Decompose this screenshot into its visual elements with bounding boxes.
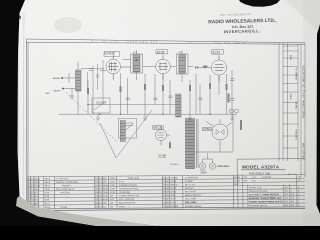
svg-text:CONTROL: CONTROL (60, 192, 71, 194)
svg-text:MICA: MICA (45, 178, 51, 181)
svg-text:TUB: TUB (45, 196, 50, 198)
svg-text:DATE: DATE (290, 54, 293, 60)
svg-text:ELEC: ELEC (45, 203, 51, 205)
svg-text:1st & 2nd I.F. TRANS 455 KC/S: 1st & 2nd I.F. TRANS 455 KC/S (249, 193, 280, 196)
svg-text:GRID LEAK: GRID LEAK (128, 177, 140, 180)
svg-text:.0005: .0005 (35, 186, 41, 188)
svg-text:CHASSIS: CHASSIS (262, 176, 272, 179)
svg-text:100K: 100K (103, 196, 109, 198)
svg-text:500K: 500K (103, 199, 109, 201)
svg-text:SPEAKER TRANSFORMER 7000: SPEAKER TRANSFORMER 7000 (249, 197, 282, 200)
svg-text:TUB: TUB (45, 193, 50, 195)
svg-text:A.V.C.: A.V.C. (119, 180, 125, 183)
svg-text:POWER TRANSFORMER 230V 50: POWER TRANSFORMER 230V 50 (249, 200, 284, 203)
svg-text:CIRCUIT 7084: CIRCUIT 7084 (301, 142, 305, 160)
svg-text:AERIAL: AERIAL (53, 77, 61, 80)
svg-text:EF39: EF39 (171, 181, 177, 183)
svg-text:RECTIFIER: RECTIFIER (185, 191, 197, 193)
svg-text:COUPLING: COUPLING (119, 192, 131, 194)
svg-text:TUB: TUB (45, 189, 50, 191)
svg-text:VOL. CONTROL: VOL. CONTROL (119, 199, 136, 201)
svg-text:AERIAL COIL: AERIAL COIL (249, 186, 263, 189)
svg-text:OUTPUT: OUTPUT (185, 188, 195, 190)
svg-text:MAINS SWITCH: MAINS SWITCH (185, 194, 201, 197)
svg-text:Pg 1 of 1: Pg 1 of 1 (288, 174, 297, 176)
svg-text:I.F. 455 KC/S: I.F. 455 KC/S (56, 178, 69, 180)
svg-text:EL33: EL33 (213, 51, 221, 55)
svg-text:6.3V: 6.3V (171, 202, 176, 204)
svg-text:250K: 250K (103, 192, 109, 194)
svg-text:FIELD: FIELD (119, 206, 126, 208)
svg-text:50 100 150 2: 50 100 150 2 (217, 43, 245, 45)
svg-text:8MF: 8MF (35, 203, 40, 205)
svg-text:SPEAKER 6IN P.M.: SPEAKER 6IN P.M. (249, 204, 268, 207)
svg-text:SCREEN BYPASS: SCREEN BYPASS (119, 184, 138, 187)
svg-text:TUNING CONDENSER: TUNING CONDENSER (56, 182, 79, 184)
svg-text:25K: 25K (103, 182, 107, 184)
svg-text:EF39: EF39 (157, 50, 165, 54)
svg-text:EBC33: EBC33 (154, 126, 163, 130)
svg-text:MICA: MICA (45, 185, 51, 188)
svg-text:EBC33: EBC33 (171, 185, 179, 187)
svg-text:6X5G: 6X5G (171, 192, 177, 194)
svg-text:CATHODE BYPASS: CATHODE BYPASS (119, 187, 139, 190)
svg-text:.0001: .0001 (35, 182, 41, 184)
svg-text:POWER TRANS.: POWER TRANS. (185, 205, 202, 208)
svg-text:SCALE: SCALE (290, 93, 293, 100)
svg-text:DET. A.V.C.: DET. A.V.C. (185, 183, 197, 186)
svg-text:TRACED: TRACED (295, 101, 298, 110)
svg-text:EL33: EL33 (171, 188, 177, 190)
svg-text:DRAWN J.B.: DRAWN J.B. (295, 67, 298, 80)
svg-text:MODEL A3Z97A: MODEL A3Z97A (242, 164, 280, 169)
svg-text:CONVERTER: CONVERTER (185, 177, 199, 179)
svg-text:CODE: CODE (234, 177, 241, 179)
svg-text:5MEG: 5MEG (103, 189, 109, 191)
svg-text:50K: 50K (103, 178, 107, 180)
svg-text:6X5G: 6X5G (204, 127, 211, 131)
svg-text:VOL MIN: VOL MIN (158, 157, 166, 159)
svg-text:CODE: CODE (234, 181, 241, 183)
svg-text:OSCILLATOR COIL: OSCILLATOR COIL (249, 190, 269, 193)
svg-text:L.W.: L.W. (252, 177, 257, 179)
svg-text:MICA: MICA (45, 181, 51, 184)
svg-text:INVERCARGILL.: INVERCARGILL. (224, 28, 261, 34)
svg-text:230V A.C.: 230V A.C. (170, 163, 179, 166)
svg-text:RADIO CORPN. OF N.Z. LTD. WELL: RADIO CORPN. OF N.Z. LTD. WELLINGTON (301, 65, 305, 118)
svg-text:LAMPS: LAMPS (201, 172, 208, 175)
svg-text:6.3V: 6.3V (171, 199, 176, 201)
svg-text:ECH35: ECH35 (171, 178, 179, 180)
svg-text:.0001: .0001 (35, 179, 41, 181)
svg-text:TONE CORRECTOR: TONE CORRECTOR (119, 195, 140, 197)
svg-text:PART: PART (234, 183, 240, 186)
svg-text:DIAL DRIVE: DIAL DRIVE (185, 201, 197, 204)
svg-text:1MEG: 1MEG (103, 185, 109, 187)
svg-text:CHECKED: CHECKED (296, 129, 298, 140)
svg-text:TRANS: TRANS (171, 205, 179, 208)
svg-text:EARTH: EARTH (54, 89, 62, 92)
svg-text:100K: 100K (45, 93, 50, 95)
svg-text:BIAS RESISTOR: BIAS RESISTOR (119, 202, 136, 205)
svg-text:DIAL LAMPS: DIAL LAMPS (218, 165, 230, 168)
svg-text:150 300 450: 150 300 450 (130, 42, 159, 44)
svg-text:POT: POT (110, 199, 115, 201)
svg-text:DIAL LAMP: DIAL LAMP (185, 197, 197, 200)
svg-text:B.C.: B.C. (252, 180, 257, 182)
svg-text:ECH35: ECH35 (105, 52, 116, 56)
svg-text:TUB: TUB (45, 200, 50, 202)
svg-text:I.F. AMP: I.F. AMP (185, 180, 194, 183)
svg-text:FILTER: FILTER (60, 207, 68, 209)
svg-text:PADDER: PADDER (62, 184, 71, 187)
